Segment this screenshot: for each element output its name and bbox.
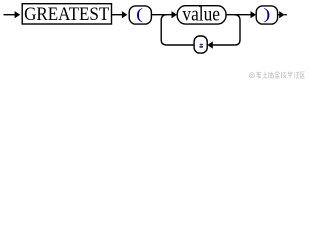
watermark @xitu juejin tech community <box>249 72 305 79</box>
wire: loop right riser <box>234 15 240 45</box>
arrowhead into , (pointing left) <box>207 41 213 48</box>
char she <box>294 72 299 79</box>
wire: end stub <box>284 14 287 16</box>
wire: start line <box>4 14 16 16</box>
svg-text:(: ( <box>136 5 143 23</box>
wire: loop left riser <box>161 15 167 45</box>
wire: ) to end <box>278 14 281 16</box>
label ) <box>263 5 270 23</box>
terminal oval value <box>177 6 226 24</box>
end arrowhead <box>279 11 284 18</box>
wire: loop bottom-right segment <box>212 44 235 46</box>
arrowhead into GREATEST <box>15 11 21 18</box>
wire: GREATEST to ( <box>112 14 123 16</box>
label ( <box>136 5 143 23</box>
non-terminal box GREATEST <box>22 4 111 24</box>
arrowhead into value <box>172 11 178 18</box>
char tu <box>262 72 267 78</box>
char ji <box>281 72 287 79</box>
terminal ( <box>129 6 151 24</box>
svg-text:): ) <box>263 5 270 23</box>
wire: loop bottom-left segment <box>167 44 194 46</box>
wire: ( to value (loop joins here) <box>151 14 172 16</box>
wire: value to ) (loop branches here) <box>226 14 251 16</box>
char jue <box>269 72 274 79</box>
label , <box>200 44 203 45</box>
char shu <box>288 72 293 79</box>
svg-text:GREATEST: GREATEST <box>24 4 109 25</box>
char jin <box>275 72 280 78</box>
arrowhead into ) <box>251 11 257 18</box>
@ <box>249 73 254 78</box>
terminal ) <box>256 6 277 24</box>
terminal , <box>194 36 207 53</box>
char qu <box>301 72 305 78</box>
svg-text:value: value <box>182 4 220 25</box>
char xi <box>256 72 261 79</box>
arrowhead into ( <box>122 11 128 18</box>
